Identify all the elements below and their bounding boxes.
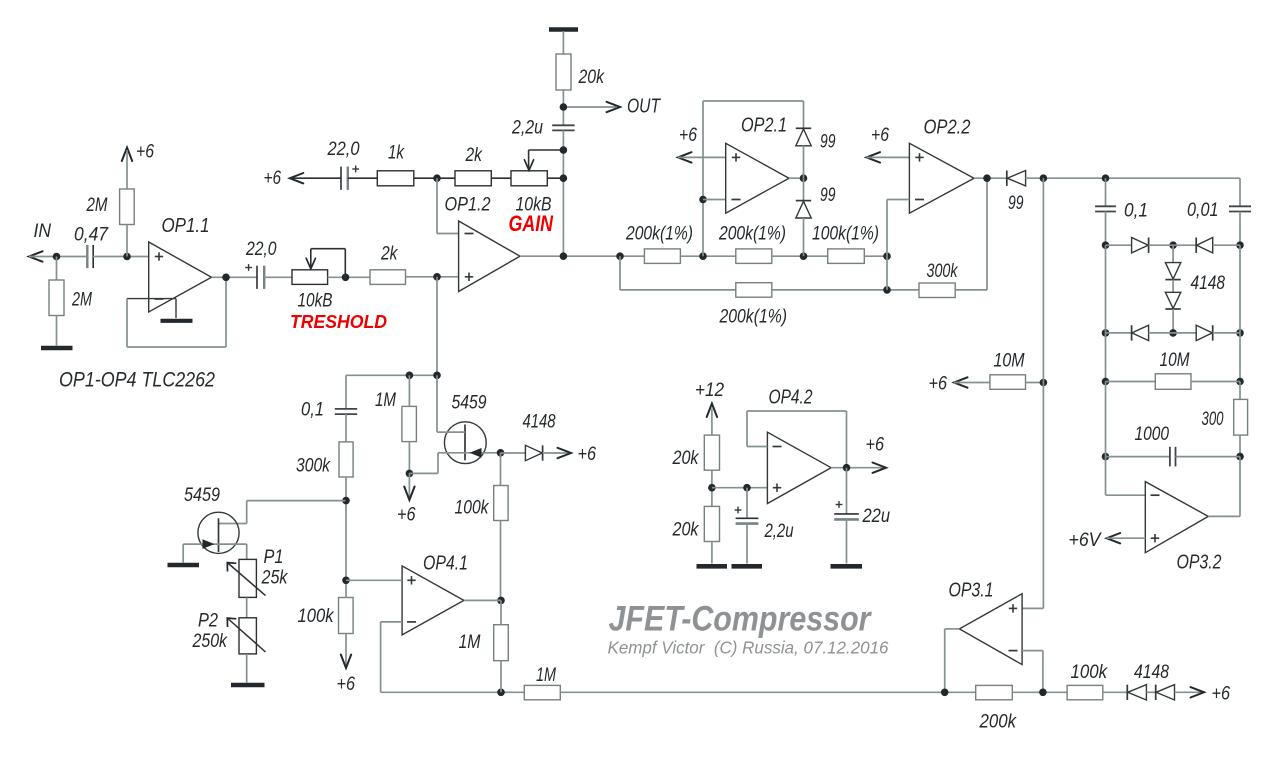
svg-text:+6: +6: [679, 125, 697, 146]
svg-text:0,01: 0,01: [1187, 200, 1219, 221]
svg-text:200k(1%): 200k(1%): [625, 224, 693, 245]
svg-text:5459: 5459: [452, 393, 487, 414]
svg-text:300k: 300k: [296, 456, 331, 477]
svg-text:JFET-Compressor: JFET-Compressor: [609, 600, 873, 639]
svg-text:0,47: 0,47: [74, 225, 109, 246]
svg-text:1M: 1M: [459, 632, 481, 653]
svg-text:+6: +6: [1212, 684, 1231, 705]
svg-text:10M: 10M: [994, 351, 1025, 372]
svg-text:+6V: +6V: [1069, 530, 1103, 551]
svg-text:4148: 4148: [523, 412, 556, 433]
svg-text:25k: 25k: [261, 568, 289, 589]
svg-text:Kempf Victor (C) Russia, 07.1: Kempf Victor (C) Russia, 07.12.2016: [608, 637, 889, 657]
svg-text:2M: 2M: [86, 195, 108, 216]
svg-text:1k: 1k: [388, 143, 405, 164]
svg-text:10M: 10M: [1160, 350, 1190, 371]
svg-text:250k: 250k: [192, 631, 229, 652]
svg-text:100k: 100k: [298, 606, 335, 627]
svg-text:1000: 1000: [1135, 424, 1170, 445]
svg-text:+6: +6: [264, 168, 282, 189]
svg-text:100k: 100k: [455, 498, 490, 519]
svg-text:5459: 5459: [184, 485, 220, 506]
svg-text:+6: +6: [337, 674, 356, 695]
svg-text:OUT: OUT: [627, 96, 661, 118]
svg-text:OP1.1: OP1.1: [162, 215, 210, 237]
svg-text:1M: 1M: [536, 665, 556, 686]
svg-text:OP2.1: OP2.1: [741, 115, 787, 137]
svg-text:22,0: 22,0: [327, 139, 360, 160]
svg-text:200k(1%): 200k(1%): [718, 224, 786, 245]
svg-text:P1: P1: [264, 547, 284, 568]
svg-text:0,1: 0,1: [1124, 201, 1148, 222]
svg-text:2,2u: 2,2u: [511, 118, 543, 139]
svg-text:OP3.2: OP3.2: [1177, 552, 1222, 574]
svg-text:+6: +6: [578, 444, 597, 465]
svg-text:99: 99: [1008, 193, 1024, 214]
svg-text:TRESHOLD: TRESHOLD: [290, 312, 387, 332]
svg-text:300: 300: [1202, 409, 1224, 430]
svg-text:20k: 20k: [578, 67, 606, 88]
svg-text:2k: 2k: [380, 244, 399, 265]
svg-text:+6: +6: [871, 125, 889, 146]
svg-text:2M: 2M: [71, 290, 92, 311]
svg-text:4148: 4148: [1134, 662, 1169, 683]
svg-text:OP1.2: OP1.2: [445, 195, 491, 216]
svg-text:10kB: 10kB: [298, 291, 333, 312]
svg-text:+6: +6: [397, 505, 416, 526]
svg-text:99: 99: [820, 132, 836, 153]
svg-text:1M: 1M: [375, 390, 396, 411]
svg-text:2k: 2k: [465, 145, 484, 166]
svg-text:GAIN: GAIN: [509, 211, 554, 236]
svg-text:99: 99: [820, 185, 836, 206]
svg-text:OP1-OP4 TLC2262: OP1-OP4 TLC2262: [59, 369, 215, 392]
svg-text:OP2.2: OP2.2: [924, 117, 971, 139]
svg-text:100k: 100k: [1071, 662, 1109, 683]
svg-text:2,2u: 2,2u: [764, 521, 794, 542]
svg-text:200k: 200k: [979, 712, 1018, 733]
svg-text:OP4.2: OP4.2: [769, 387, 813, 409]
svg-text:4148: 4148: [1191, 273, 1226, 294]
svg-text:+6: +6: [136, 142, 154, 163]
svg-text:OP3.1: OP3.1: [949, 580, 994, 602]
svg-text:22,0: 22,0: [245, 239, 277, 260]
svg-text:0,1: 0,1: [301, 400, 324, 421]
svg-text:P2: P2: [198, 611, 218, 632]
svg-text:22u: 22u: [862, 506, 891, 527]
svg-text:200k(1%): 200k(1%): [719, 307, 787, 328]
svg-text:IN: IN: [34, 221, 52, 242]
svg-text:OP4.1: OP4.1: [423, 553, 468, 575]
svg-text:+6: +6: [866, 435, 885, 456]
svg-text:+6: +6: [929, 374, 948, 395]
svg-text:+12: +12: [695, 380, 724, 401]
svg-text:300k: 300k: [927, 261, 959, 282]
svg-text:20k: 20k: [672, 448, 700, 469]
svg-text:20k: 20k: [672, 520, 700, 541]
svg-text:100k(1%): 100k(1%): [812, 224, 879, 245]
